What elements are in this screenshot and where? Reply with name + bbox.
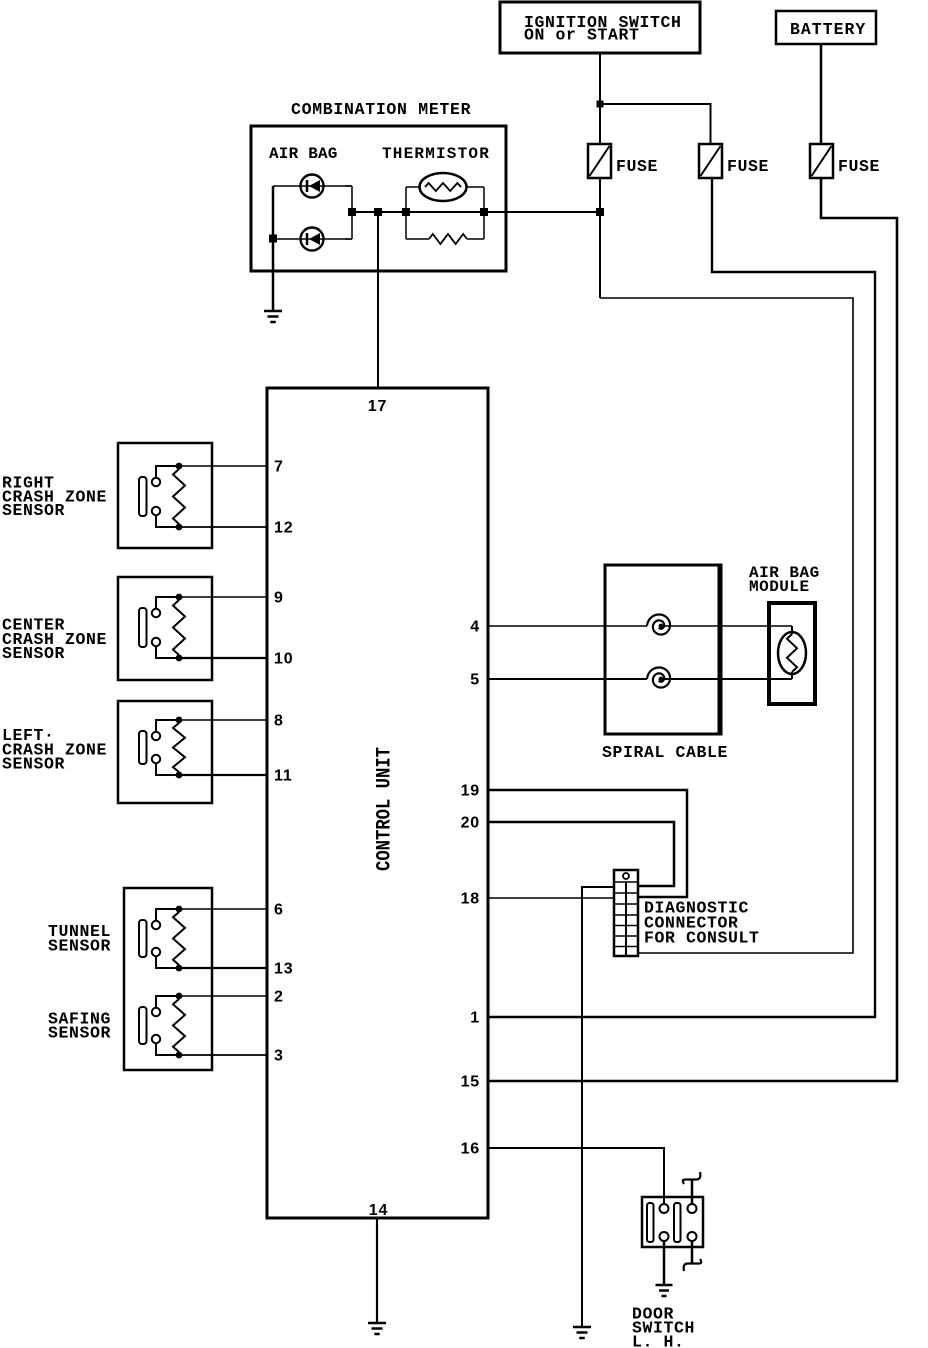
svg-text:SENSOR: SENSOR xyxy=(48,937,111,956)
pin 13 label xyxy=(274,961,293,978)
left crash zone sensor upper contact xyxy=(152,720,179,740)
safing sensor label xyxy=(48,1010,111,1043)
wire battery to fuse F3 xyxy=(820,44,823,144)
safing sensor bottom junction xyxy=(176,1052,183,1059)
wire fuse F2 to pin 1 xyxy=(488,178,875,1017)
center crash zone sensor box xyxy=(118,577,212,680)
svg-text:SENSOR: SENSOR xyxy=(2,644,65,663)
svg-text:4: 4 xyxy=(470,619,480,636)
node thermistor left junction xyxy=(402,208,410,216)
node lamp left junction xyxy=(269,235,277,243)
right crash zone sensor top junction xyxy=(176,463,183,470)
svg-text:6: 6 xyxy=(274,902,284,919)
air bag module label xyxy=(749,564,820,596)
ground below control unit xyxy=(368,1323,386,1334)
pin 10 label xyxy=(274,651,293,668)
svg-text:L. H.: L. H. xyxy=(632,1333,685,1348)
svg-text:1: 1 xyxy=(470,1010,480,1027)
door switch contact top-right xyxy=(688,1204,697,1213)
door switch contact bottom-right xyxy=(688,1232,697,1241)
wire pin 20 to connector xyxy=(488,822,674,886)
door switch lower connector stub xyxy=(684,1241,702,1271)
wire spiral to air bag module lower xyxy=(661,678,792,680)
pin 19 label xyxy=(461,783,480,800)
tunnel sensor resistor xyxy=(173,912,185,965)
spiral cable label xyxy=(602,743,728,762)
door switch box xyxy=(642,1197,703,1247)
safing sensor top junction xyxy=(176,993,183,1000)
air bag lamp label xyxy=(269,145,338,163)
battery box xyxy=(776,11,876,44)
wire door switch to ground xyxy=(663,1241,666,1285)
node ignition branch junction xyxy=(597,101,604,108)
pin 14 label xyxy=(369,1202,388,1219)
node fuse F1 output junction xyxy=(596,208,604,216)
left crash zone sensor box xyxy=(118,701,212,803)
diode D1 xyxy=(301,175,324,198)
svg-text:SENSOR: SENSOR xyxy=(2,501,65,520)
wire left branch of air bag lamp xyxy=(272,186,275,239)
pin 9 label xyxy=(274,590,284,607)
svg-text:THERMISTOR: THERMISTOR xyxy=(382,145,490,163)
wire pin 14 to ground xyxy=(376,1218,378,1323)
pin 8 label xyxy=(274,713,284,730)
door switch plate left xyxy=(647,1203,654,1242)
center crash zone sensor upper contact xyxy=(152,597,179,617)
svg-text:CONTROL UNIT: CONTROL UNIT xyxy=(374,747,397,871)
svg-text:18: 18 xyxy=(461,891,480,908)
pin 6 label xyxy=(274,902,284,919)
wire diode D1 right xyxy=(345,185,352,187)
ground below combination meter xyxy=(264,311,282,322)
wire fuse F1 to meter junction xyxy=(599,178,601,298)
svg-text:3: 3 xyxy=(274,1048,284,1065)
svg-text:13: 13 xyxy=(274,961,293,978)
door switch plate right xyxy=(674,1203,681,1242)
svg-text:2: 2 xyxy=(274,989,284,1006)
svg-text:FUSE: FUSE xyxy=(838,157,880,176)
tunnel sensor top junction xyxy=(176,906,183,913)
combination meter box xyxy=(251,126,506,271)
safing sensor upper contact xyxy=(152,996,179,1016)
wire sensor to pin 8 xyxy=(179,719,267,721)
tunnel sensor lower contact xyxy=(152,948,179,968)
wire sensor to pin 10 xyxy=(179,657,267,659)
svg-text:SENSOR: SENSOR xyxy=(2,755,65,774)
wire diode D1 left xyxy=(273,185,352,187)
wire thermistor left branch xyxy=(405,187,407,239)
left crash zone sensor contact plate xyxy=(139,731,147,764)
pin 11 label xyxy=(274,768,293,785)
wire meter lamp to ground xyxy=(272,239,275,311)
wire sensor to pin 9 xyxy=(179,596,267,598)
wire thermistor right branch xyxy=(483,187,485,239)
center crash zone sensor lower contact xyxy=(152,638,179,658)
svg-text:14: 14 xyxy=(369,1202,388,1219)
wire ignition switch to fuse F1 xyxy=(599,53,601,144)
wire fuse F1 to diagnostic connector xyxy=(600,298,853,953)
center crash zone sensor label xyxy=(2,616,107,664)
right crash zone sensor label xyxy=(2,474,107,521)
door switch contact top-left xyxy=(660,1204,669,1213)
wire sensor to pin 12 xyxy=(179,526,267,528)
wire sensor to pin 7 xyxy=(179,465,267,467)
wire pin 17 from meter xyxy=(377,212,379,389)
wire sensor to pin 3 xyxy=(179,1054,267,1056)
center crash zone sensor contact plate xyxy=(139,608,147,647)
svg-text:8: 8 xyxy=(274,713,284,730)
left crash zone sensor top junction xyxy=(176,717,183,724)
safing sensor contact plate xyxy=(139,1007,147,1044)
tunnel sensor upper contact xyxy=(152,909,179,929)
pin 4 label xyxy=(470,619,480,636)
pin 17 label xyxy=(368,398,387,415)
left crash zone sensor resistor xyxy=(173,723,185,772)
svg-text:15: 15 xyxy=(461,1074,480,1091)
door switch label xyxy=(632,1305,695,1348)
fuse F2 xyxy=(699,144,769,178)
left crash zone sensor label xyxy=(2,726,107,774)
wire right branch of air bag lamp xyxy=(351,186,353,239)
thermistor label xyxy=(382,145,490,163)
svg-text:12: 12 xyxy=(274,520,293,537)
air bag module box xyxy=(769,603,815,704)
wire pin 18 to connector xyxy=(488,897,614,899)
svg-text:7: 7 xyxy=(274,459,284,476)
svg-text:AIR BAG: AIR BAG xyxy=(269,145,338,163)
spiral cable box xyxy=(605,565,721,734)
svg-text:9: 9 xyxy=(274,590,284,607)
svg-text:MODULE: MODULE xyxy=(749,578,810,596)
pin 3 label xyxy=(274,1048,284,1065)
center crash zone sensor resistor xyxy=(173,600,185,655)
left crash zone sensor bottom junction xyxy=(176,772,183,779)
ground at bottom center xyxy=(573,1327,591,1338)
node thermistor right junction xyxy=(480,208,488,216)
svg-text:11: 11 xyxy=(274,768,293,785)
resistor in meter xyxy=(406,234,484,244)
diagnostic connector for consult xyxy=(614,870,638,956)
svg-text:SPIRAL CABLE: SPIRAL CABLE xyxy=(602,743,728,762)
tunnel sensor bottom junction xyxy=(176,965,183,972)
wire pin 16 to door switch xyxy=(488,1148,664,1203)
spiral contact lower xyxy=(647,667,670,687)
svg-text:16: 16 xyxy=(461,1141,480,1158)
node pin 17 tap junction xyxy=(374,208,382,216)
wire fuse F3 to pin 15 xyxy=(488,178,897,1081)
svg-text:20: 20 xyxy=(461,815,480,832)
svg-text:ON or START: ON or START xyxy=(524,26,640,45)
control unit label xyxy=(374,747,397,871)
right crash zone sensor bottom junction xyxy=(176,524,183,531)
svg-text:FUSE: FUSE xyxy=(616,157,658,176)
control unit box xyxy=(267,388,488,1218)
diode D2 xyxy=(301,228,324,251)
svg-text:19: 19 xyxy=(461,783,480,800)
right crash zone sensor contact plate xyxy=(139,477,147,516)
center crash zone sensor bottom junction xyxy=(176,655,183,662)
svg-text:5: 5 xyxy=(470,672,480,689)
fuse F1 xyxy=(588,144,658,178)
wire pin 4 to spiral cable xyxy=(488,625,647,627)
tunnel sensor contact plate xyxy=(139,920,147,957)
combination meter label xyxy=(291,100,471,119)
pin 16 label xyxy=(461,1141,480,1158)
svg-text:FUSE: FUSE xyxy=(727,157,769,176)
pin 7 label xyxy=(274,459,284,476)
pin 1 label xyxy=(470,1010,480,1027)
center crash zone sensor top junction xyxy=(176,594,183,601)
node lamp output junction xyxy=(348,208,356,216)
door switch contact bottom-left xyxy=(660,1232,669,1241)
svg-text:17: 17 xyxy=(368,398,387,415)
pin 5 label xyxy=(470,672,480,689)
pin 20 label xyxy=(461,815,480,832)
svg-text:SENSOR: SENSOR xyxy=(48,1024,111,1043)
safing sensor lower contact xyxy=(152,1035,179,1055)
pin 18 label xyxy=(461,891,480,908)
right crash zone sensor lower contact xyxy=(152,507,179,527)
pin 12 label xyxy=(274,520,293,537)
tunnel and safing sensor box xyxy=(124,888,212,1070)
wire sensor to pin 6 xyxy=(179,908,267,910)
wire spiral to air bag module upper xyxy=(661,625,792,627)
thermistor element xyxy=(406,173,484,201)
wire meter output bus xyxy=(352,211,600,213)
wire branch to fuse F2 xyxy=(600,104,711,144)
ignition switch box xyxy=(500,2,700,53)
wire diode D2 right xyxy=(345,238,352,240)
diagnostic connector label xyxy=(644,899,760,948)
pin 15 label xyxy=(461,1074,480,1091)
wire sensor to pin 11 xyxy=(179,774,267,776)
wire sensor to pin 13 xyxy=(179,967,267,969)
svg-text:10: 10 xyxy=(274,651,293,668)
wire pin 19 to connector xyxy=(488,790,687,897)
svg-text:COMBINATION METER: COMBINATION METER xyxy=(291,100,471,119)
wire pin 5 to spiral cable xyxy=(488,678,647,680)
spiral contact upper xyxy=(647,614,670,634)
left crash zone sensor lower contact xyxy=(152,755,179,775)
air bag squib xyxy=(778,626,806,679)
tunnel sensor label xyxy=(48,922,111,956)
ground below door switch xyxy=(656,1285,673,1296)
right crash zone sensor resistor xyxy=(173,469,185,524)
safing sensor resistor xyxy=(173,999,185,1052)
svg-text:FOR CONSULT: FOR CONSULT xyxy=(644,929,760,948)
right crash zone sensor upper contact xyxy=(152,466,179,486)
right crash zone sensor box xyxy=(118,443,212,548)
wire connector to ground branch xyxy=(582,887,614,1327)
wire diode D2 left xyxy=(273,238,352,240)
fuse F3 xyxy=(810,144,880,178)
pin 2 label xyxy=(274,989,284,1006)
svg-text:BATTERY: BATTERY xyxy=(790,20,866,39)
door switch upper connector stub xyxy=(683,1172,701,1204)
wire sensor to pin 2 xyxy=(179,995,267,997)
